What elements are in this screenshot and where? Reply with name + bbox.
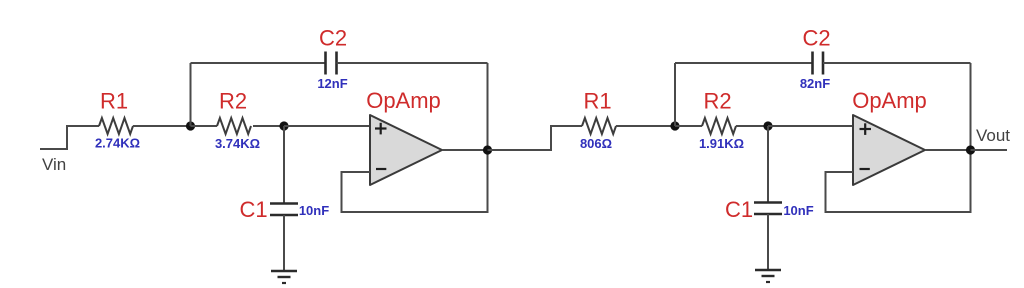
node out1 junction dot <box>483 145 492 154</box>
wire node A to R2 <box>191 125 218 127</box>
wire C2 top left segment (stage 2) <box>675 62 813 64</box>
wire node D to op-amp + input (stage 2) <box>768 125 853 127</box>
svg-text:R2: R2 <box>703 89 731 114</box>
svg-text:10nF: 10nF <box>783 203 813 218</box>
svg-text:Vin: Vin <box>42 155 66 174</box>
wire node A up to C2 <box>190 63 192 126</box>
ground (stage 2) <box>755 270 781 282</box>
wire C1 to ground (stage 2) <box>767 214 769 270</box>
capacitor C2 (stage 2) <box>813 52 824 75</box>
op-amp U2 <box>853 115 925 185</box>
svg-text:OpAmp: OpAmp <box>366 88 441 113</box>
wire Vout stub <box>971 149 1008 151</box>
svg-text:806Ω: 806Ω <box>580 136 612 151</box>
wire R1 to node A <box>133 125 191 127</box>
capacitor C1 (stage 2) <box>754 203 782 215</box>
wire node D down to C1 (stage 2) <box>767 126 769 202</box>
resistor R1 (stage 2) <box>582 118 616 134</box>
svg-text:10nF: 10nF <box>299 203 329 218</box>
svg-text:C2: C2 <box>319 26 347 51</box>
wire op-amp feedback to - input <box>342 63 488 212</box>
wire C2 top right segment <box>337 62 488 64</box>
op-amp U1 <box>370 115 442 185</box>
wire R1 to node C <box>616 125 675 127</box>
wire C1 to ground <box>283 215 285 271</box>
svg-text:R2: R2 <box>219 89 247 114</box>
wire node C to R2 <box>675 125 702 127</box>
node A junction dot <box>186 121 195 130</box>
wire op-amp output <box>442 149 488 151</box>
wire node C up to C2 <box>674 63 676 126</box>
svg-text:R1: R1 <box>583 89 611 114</box>
svg-text:1.91KΩ: 1.91KΩ <box>699 136 744 151</box>
svg-text:3.74KΩ: 3.74KΩ <box>215 136 260 151</box>
svg-text:Vout: Vout <box>976 126 1010 145</box>
wire op-amp output (stage 2) <box>925 149 971 151</box>
resistor R2 (stage 1) <box>217 118 251 134</box>
wire C2 top right segment (stage 2) <box>823 62 971 64</box>
svg-text:OpAmp: OpAmp <box>852 88 927 113</box>
resistor R1 (stage 1) <box>99 118 133 134</box>
wire C2 top left segment <box>191 62 326 64</box>
svg-text:C1: C1 <box>239 197 267 222</box>
node C junction dot <box>670 121 679 130</box>
ground (stage 1) <box>271 271 297 283</box>
node D junction dot <box>763 121 772 130</box>
svg-text:R1: R1 <box>100 89 128 114</box>
wire stage 1 output to stage 2 <box>488 126 583 150</box>
node Vout junction dot <box>966 145 975 154</box>
wire R2 to node D <box>736 125 768 127</box>
resistor R2 (stage 2) <box>702 118 736 134</box>
wire node B down to C1 <box>283 126 285 203</box>
wire node B to op-amp + input <box>284 125 370 127</box>
svg-text:2.74KΩ: 2.74KΩ <box>95 136 140 151</box>
wire op-amp feedback to - input (stage 2) <box>826 63 971 212</box>
wire Vin input stub <box>40 126 99 149</box>
node B junction dot <box>279 121 288 130</box>
capacitor C2 (stage 1) <box>326 52 337 75</box>
svg-text:12nF: 12nF <box>317 76 347 91</box>
capacitor C1 (stage 1) <box>270 204 298 216</box>
svg-text:C1: C1 <box>725 197 753 222</box>
wire R2 to node B <box>253 125 284 127</box>
svg-text:82nF: 82nF <box>800 76 830 91</box>
svg-text:C2: C2 <box>802 26 830 51</box>
